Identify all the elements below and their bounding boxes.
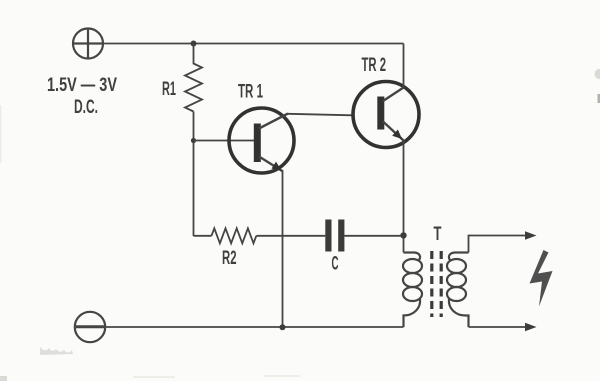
battery positive terminal (73, 29, 103, 59)
wire TR2 collector up to rail (403, 44, 405, 88)
wire secondary top lead (469, 236, 527, 253)
wire TR2 emitter down to transformer (403, 141, 405, 253)
wire secondary bottom lead (469, 326, 527, 328)
svg-text:TR 1: TR 1 (238, 82, 263, 103)
transformer core (432, 251, 441, 317)
transistor TR1 (229, 108, 294, 173)
svg-text:TR 2: TR 2 (362, 55, 387, 76)
wire R2 left lead (194, 235, 212, 237)
wire top rail (103, 43, 404, 45)
transistor TR2 (353, 82, 419, 148)
resistor R1 (185, 44, 202, 112)
wire bottom rail (106, 326, 404, 328)
battery negative terminal (75, 312, 105, 342)
node top of R1 (191, 41, 197, 47)
capacitor C (325, 220, 344, 252)
svg-text:1.5V — 3V: 1.5V — 3V (47, 75, 117, 96)
node base of TR1 (191, 138, 196, 143)
wire TR1 base (194, 140, 255, 142)
arrow output bottom (525, 323, 537, 331)
spark lightning bolt (530, 250, 553, 307)
wire TR1 collector to TR2 base (288, 114, 353, 116)
svg-text:D.C.: D.C. (74, 97, 98, 118)
wire R1 bottom to R2 corner (193, 112, 195, 237)
resistor R2 (212, 228, 257, 243)
svg-text:R2: R2 (222, 248, 237, 269)
node bottom rail junction (280, 324, 286, 330)
svg-text:R1: R1 (162, 79, 176, 100)
svg-text:C: C (332, 254, 339, 275)
wire C to transformer node (344, 235, 400, 237)
node transformer primary top (400, 232, 406, 238)
wire TR1 emitter vertical (282, 171, 284, 328)
svg-text:T: T (434, 224, 442, 245)
wire R2 to capacitor C (256, 235, 325, 237)
arrow output top (525, 231, 537, 239)
transformer T secondary winding (447, 253, 469, 328)
transformer T primary winding (403, 253, 422, 328)
